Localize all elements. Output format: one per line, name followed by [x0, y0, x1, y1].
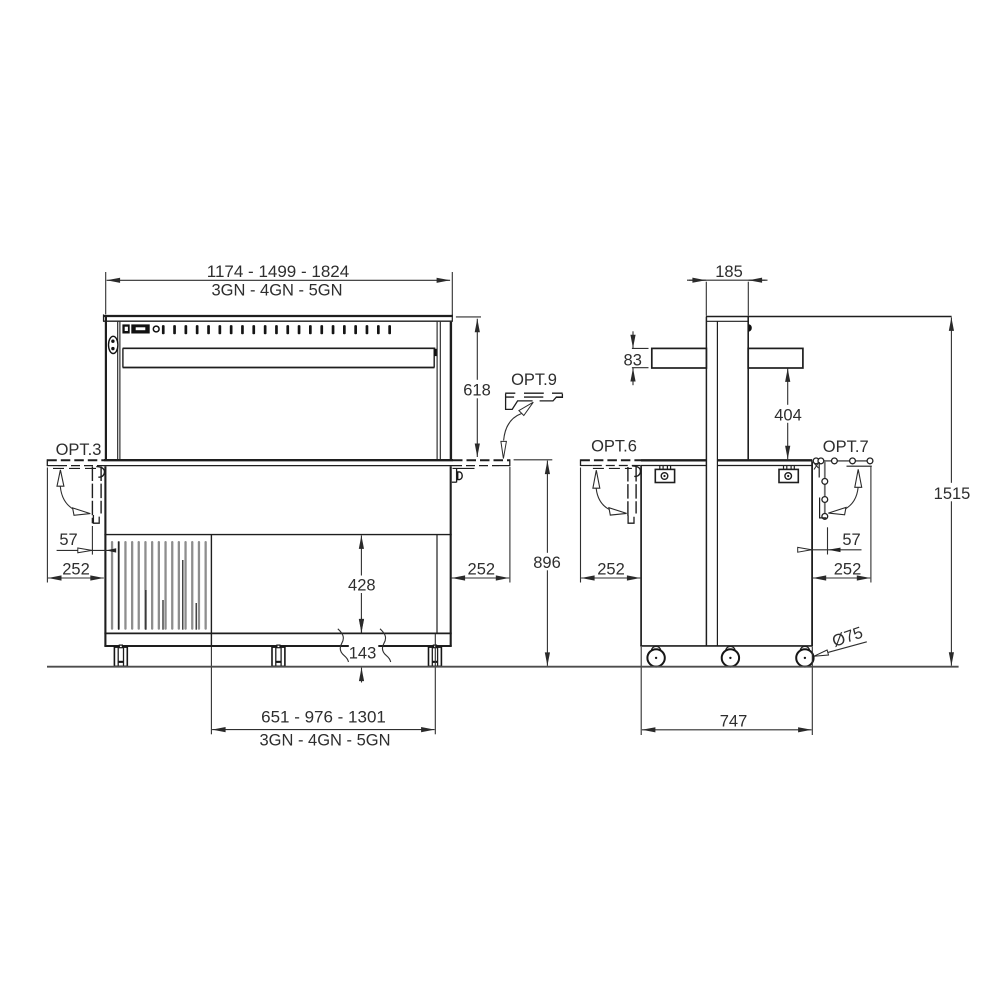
svg-text:252: 252 [597, 561, 625, 579]
OPT.3 folded shelf dashed [92, 467, 104, 524]
dimension 83 shelf thickness [624, 331, 649, 385]
control panel display [131, 324, 149, 333]
svg-text:57: 57 [842, 531, 860, 549]
dimension 143 [338, 618, 391, 683]
OPT.9 tray rail icon [505, 393, 562, 409]
display case right wall [437, 322, 451, 460]
overshelf pillar [706, 317, 952, 647]
dimension 252 side right [813, 466, 871, 583]
svg-text:3GN - 4GN - 5GN: 3GN - 4GN - 5GN [211, 281, 342, 299]
OPT.3 label [56, 441, 102, 459]
countertop front view [47, 459, 510, 468]
dimension 428 [346, 535, 377, 632]
svg-text:651 - 976 - 1301: 651 - 976 - 1301 [261, 708, 386, 727]
svg-text:1515: 1515 [934, 485, 971, 503]
wheel left [647, 646, 664, 666]
svg-text:1174 - 1499 - 1824: 1174 - 1499 - 1824 [207, 262, 349, 281]
svg-text:896: 896 [533, 554, 561, 572]
svg-text:252: 252 [834, 561, 862, 579]
svg-text:OPT.3: OPT.3 [56, 441, 102, 459]
dimension 747 [641, 647, 812, 735]
dimension 896 [514, 460, 564, 666]
svg-text:618: 618 [463, 382, 491, 400]
svg-text:428: 428 [348, 577, 376, 595]
compressor compartment divider [210, 535, 212, 646]
base cabinet front view [104, 466, 451, 646]
OPT.6 rotation arc arrows [593, 470, 627, 515]
dimension 252 front right [452, 467, 510, 583]
dimension 618 [456, 317, 493, 457]
svg-text:747: 747 [720, 712, 748, 730]
dimension 57 right [798, 527, 862, 554]
OPT.7 label [823, 438, 869, 456]
dimension diameter 75 wheel [814, 624, 867, 657]
svg-text:83: 83 [624, 351, 642, 369]
OPT.6 label [591, 438, 637, 456]
display case left wall [106, 317, 120, 460]
svg-text:252: 252 [468, 561, 496, 579]
dimension 185 pillar width [687, 263, 768, 316]
dimension 1174-1499-1824 top width [106, 262, 453, 316]
countertop side view [580, 459, 812, 468]
control panel small square button [122, 324, 129, 333]
svg-text:OPT.7: OPT.7 [823, 438, 869, 456]
dimension 404 [773, 368, 804, 459]
wheel right [796, 646, 813, 666]
display case top band [103, 314, 453, 321]
dimension 57 left [57, 526, 117, 555]
OPT.7 rotation arc arrows [828, 469, 861, 515]
svg-text:57: 57 [59, 531, 77, 549]
hinge oval on left wall [109, 336, 118, 353]
dimension 1515 [933, 317, 971, 665]
svg-text:143: 143 [349, 645, 377, 663]
dimension 252 side left [581, 468, 641, 583]
dimension 252 left [47, 468, 103, 583]
mounting bracket left [655, 466, 674, 483]
side cabinet body [640, 462, 813, 647]
caster front right [429, 645, 442, 666]
ground line [47, 666, 959, 668]
OPT.7 rail down position [820, 462, 828, 520]
svg-text:OPT.6: OPT.6 [591, 438, 637, 456]
caster front middle [272, 645, 285, 666]
overshelf crossbar left [652, 348, 707, 368]
caster front left [114, 645, 127, 666]
svg-text:404: 404 [774, 407, 802, 425]
OPT.3 rotation arc arrows [57, 470, 90, 515]
control panel round knob [153, 326, 159, 332]
svg-text:OPT.9: OPT.9 [511, 371, 557, 389]
svg-text:3GN - 4GN - 5GN: 3GN - 4GN - 5GN [259, 732, 390, 750]
svg-text:185: 185 [715, 263, 743, 281]
svg-text:252: 252 [62, 561, 90, 579]
OPT.6 folded shelf dashed [628, 466, 641, 523]
price strip band [123, 348, 437, 367]
mounting bracket right [779, 466, 798, 483]
vent slots row [162, 325, 391, 334]
OPT.7 rail up position [812, 458, 873, 478]
OPT.9 leader arrow [501, 402, 533, 458]
countertop end bracket right [452, 469, 462, 483]
dimension 651-976-1301 bottom [211, 634, 435, 750]
base inner right panel [436, 535, 438, 634]
wheel middle [722, 646, 739, 666]
OPT.9 label [511, 371, 557, 389]
overshelf crossbar right [748, 348, 803, 368]
ventilation grille slats [111, 541, 207, 630]
